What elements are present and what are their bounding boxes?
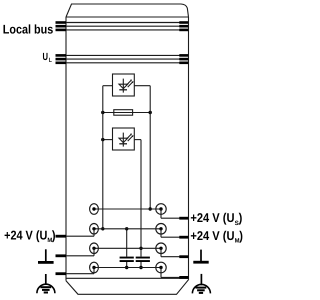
wire capacitor C1 top rail from row2	[126, 229, 128, 257]
wire C1 bottom	[126, 262, 128, 268]
ground symbol right	[193, 250, 208, 263]
wire right exit row1	[161, 209, 188, 220]
LED symbol U2	[119, 133, 134, 147]
svg-text:): )	[239, 211, 243, 225]
wire row2	[94, 228, 161, 230]
terminal 2.3	[156, 243, 166, 254]
LED indicator U2 box	[113, 128, 135, 150]
wire U2 left	[103, 139, 113, 141]
wire row4	[94, 267, 161, 269]
node C1 row4	[125, 266, 128, 269]
node C2 row4	[139, 266, 142, 269]
svg-text:+24 V (U: +24 V (U	[190, 211, 234, 225]
wire right exit row3	[161, 248, 188, 258]
capacitor C2 plates	[136, 257, 150, 262]
local bus connector teeth left	[56, 21, 67, 31]
svg-text:L: L	[49, 57, 52, 64]
terminal 1.4	[90, 262, 99, 273]
fuse F1 wire	[103, 112, 150, 114]
UL supply lines	[66, 55, 189, 62]
wire right exit row2	[161, 229, 188, 239]
svg-text:U: U	[43, 52, 49, 63]
wire U1 left	[103, 85, 113, 87]
node fuse left	[101, 111, 104, 114]
module housing bottom inner line	[66, 277, 189, 279]
capacitor C1 plates	[120, 257, 134, 262]
wire right rail to row1	[149, 86, 151, 209]
wire right exit row4	[161, 268, 188, 279]
svg-text:): )	[52, 229, 56, 243]
UL connector teeth right	[179, 54, 188, 64]
terminal 2.1	[156, 204, 166, 215]
node C2 row3	[139, 247, 142, 250]
wire C2 bottom	[140, 262, 142, 268]
terminal 1.3	[90, 243, 99, 254]
module housing top face	[66, 4, 189, 17]
wire left entry row3	[56, 248, 95, 257]
wire row3	[94, 247, 161, 249]
module housing shoulder	[66, 16, 189, 18]
local bus connector teeth right	[179, 21, 188, 31]
module housing left edge	[65, 17, 67, 281]
terminal 2.4	[156, 262, 166, 273]
local bus lines	[66, 23, 189, 30]
LED indicator U1 box	[113, 74, 135, 96]
UL connector teeth left	[56, 54, 67, 64]
terminal 1.2	[90, 224, 99, 235]
wire row1	[94, 208, 161, 210]
node right rail row1	[149, 207, 152, 210]
node fuse right	[149, 111, 152, 114]
wire left entry row2	[56, 229, 95, 238]
wire U1 right	[134, 85, 150, 87]
node U2 left junction	[101, 138, 104, 141]
terminal 1.1	[90, 204, 99, 215]
wire U2 right	[134, 139, 141, 141]
earth symbol left	[37, 274, 55, 293]
module housing bottom tray	[66, 280, 189, 295]
ground symbol left	[38, 249, 54, 262]
node C1 row2	[125, 227, 128, 230]
terminal 2.2	[156, 224, 166, 235]
LED symbol U1	[119, 79, 134, 93]
module housing right edge	[188, 17, 190, 280]
fuse F1 body	[114, 110, 133, 116]
earth symbol right	[192, 274, 210, 294]
wire U2 right rail to row3 and capacitor C2	[140, 140, 142, 257]
node left rail row2	[101, 227, 104, 230]
svg-text:+24 V (U: +24 V (U	[4, 229, 47, 243]
wire left rail	[102, 86, 104, 229]
svg-text:): )	[239, 229, 243, 243]
wire left entry row4	[56, 268, 95, 276]
svg-text:Local bus: Local bus	[3, 23, 53, 37]
svg-text:+24 V (U: +24 V (U	[190, 229, 234, 243]
